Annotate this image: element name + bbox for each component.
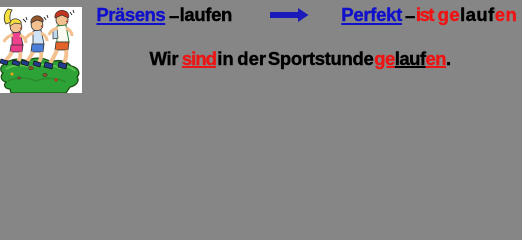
grass mound xyxy=(1,58,79,93)
boy (middle): brown hair, pale blue shirt xyxy=(21,15,48,67)
line 2: words absolutely positioned xyxy=(150,50,179,69)
girl (left): blonde ponytail, pink top xyxy=(0,9,27,66)
line 1: words absolutely positioned xyxy=(96,6,165,25)
boy (right): red hair, white singlet, orange shorts xyxy=(44,10,74,69)
grass speckles xyxy=(6,64,75,71)
clipart photo: three children running on grass xyxy=(0,7,82,93)
blue block arrow xyxy=(270,8,309,27)
